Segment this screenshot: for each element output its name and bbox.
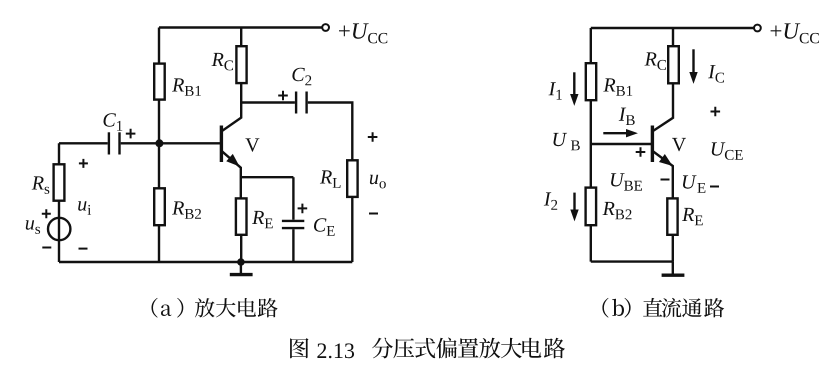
label C2: [292, 68, 311, 86]
label V (b): [672, 138, 686, 151]
ground (a): [240, 262, 242, 275]
wire top rail (a): [159, 26, 322, 28]
label UBE (b): [611, 173, 642, 190]
label Rs: [32, 176, 50, 194]
arrow IB (b): [603, 132, 627, 134]
minus uo: [369, 213, 378, 215]
label IB (b): [619, 108, 635, 125]
transistor V (a) emitter arrow: [227, 155, 238, 166]
main caption: [290, 338, 308, 358]
transistor V (a) base bar: [220, 126, 223, 163]
resistor RB2 (b): [586, 188, 597, 226]
label CE: [314, 218, 335, 236]
plus C2: [278, 91, 288, 101]
plus ui: [79, 159, 88, 168]
wire RL bottom (a): [351, 197, 353, 262]
label RE (a): [252, 211, 273, 228]
resistor RB2 (a): [154, 188, 165, 225]
minus UBE (b): [661, 179, 670, 181]
label UB (b): [553, 133, 579, 150]
label us: [26, 220, 40, 234]
resistor RC (b): [668, 46, 679, 83]
transistor V (a) emitter: [221, 151, 240, 199]
wire RE bottom (b): [672, 235, 674, 262]
plus UCE (b): [711, 107, 721, 117]
label RB1 (a): [172, 78, 201, 95]
ground (b): [672, 262, 674, 276]
resistor Rc (a): [236, 46, 246, 83]
wire left branch vertical (a): [158, 28, 160, 263]
terminal +Ucc (b): [754, 25, 761, 32]
label UCE (b): [712, 142, 743, 160]
arrow I1 (b): [573, 72, 575, 95]
plus C1: [126, 129, 136, 139]
arrow IC (b): [692, 49, 694, 73]
wire C2 to RL (a): [308, 103, 353, 161]
arrow I2 (b): [573, 193, 575, 211]
resistor RE (a): [236, 198, 247, 234]
label RL (a): [320, 170, 341, 187]
wire bottom rail (b): [591, 260, 673, 262]
source us circle (a): [48, 218, 70, 240]
wire base (b): [591, 143, 651, 145]
terminal +Ucc (a): [322, 24, 329, 31]
wire base (a): [59, 142, 108, 144]
resistor RB1 (b): [586, 63, 596, 100]
transistor V (b) collector: [652, 83, 673, 131]
wire Rc branch (b): [672, 28, 674, 46]
label I2 (b): [544, 192, 557, 209]
label RE (b): [682, 208, 703, 225]
label +UCC (b): [771, 23, 819, 43]
transistor V (b) emitter arrow: [660, 155, 672, 165]
label caption 2.13: [317, 343, 354, 358]
resistor RL (a): [347, 160, 357, 197]
capacitor C1: [108, 132, 110, 154]
label RC (b): [645, 52, 667, 70]
capacitor C2: [295, 92, 297, 114]
minus UCE (b): [710, 186, 719, 188]
wire RE bottom (a): [240, 235, 242, 262]
wire collector to C2 (a): [241, 101, 295, 103]
label C1: [104, 113, 123, 131]
wire top rail (b): [591, 27, 754, 29]
capacitor CE wires: [292, 177, 294, 220]
label RB1 (b): [603, 78, 632, 95]
plus us: [42, 209, 51, 218]
wire Rc branch (a): [240, 28, 242, 47]
plus CE: [298, 204, 308, 214]
capacitor CE plates: [282, 220, 304, 222]
caption (b): [602, 298, 608, 318]
wire emitter to CE (a): [241, 176, 294, 178]
label V (a): [245, 138, 259, 151]
label RB2 (a): [172, 201, 201, 218]
label RC (a): [212, 53, 234, 71]
label I1 (b): [549, 82, 562, 99]
label UE (b): [683, 175, 706, 192]
transistor V (b) base bar: [651, 126, 654, 163]
minus ui: [79, 248, 88, 250]
wire Rs branch (a): [58, 143, 60, 262]
label RB2 (b): [603, 202, 632, 219]
junction dot ground (a): [237, 258, 245, 266]
node dot base (a): [155, 139, 163, 147]
resistor RB1 (a): [154, 64, 165, 100]
resistor Rs (a): [54, 164, 65, 200]
plus UBE (b): [636, 147, 646, 157]
transistor V (a) collector: [221, 83, 241, 131]
label ui: [78, 201, 91, 215]
label IC (b): [708, 65, 724, 83]
minus us: [42, 247, 51, 249]
plus uo: [368, 132, 378, 142]
wire bottom rail (a): [59, 261, 352, 263]
wire left branch vertical (b): [590, 28, 592, 262]
label +UCC (a): [339, 23, 387, 43]
caption (a): [152, 298, 158, 318]
label uo: [370, 175, 386, 189]
resistor RE (b): [667, 198, 677, 234]
transistor V (b) emitter: [652, 151, 672, 199]
